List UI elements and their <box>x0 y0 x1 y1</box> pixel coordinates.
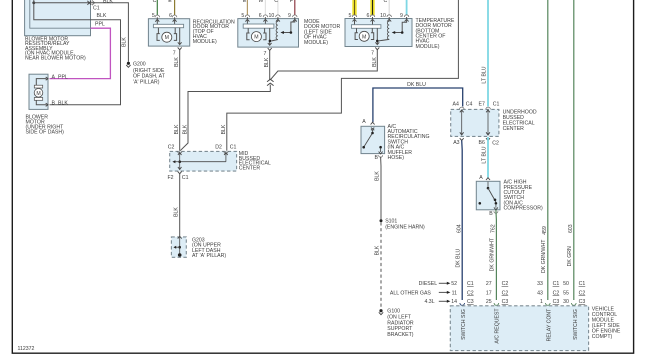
svg-text:C3: C3 <box>502 299 509 305</box>
svg-text:MODULE): MODULE) <box>304 40 328 46</box>
temp caption <box>416 18 455 50</box>
svg-text:C2: C2 <box>502 290 509 296</box>
wire BLK from C1 to G200 <box>92 0 129 62</box>
svg-text:A: A <box>479 175 483 181</box>
A/C automatic recirculating switch <box>361 119 385 161</box>
svg-text:C: C <box>274 0 278 4</box>
svg-text:C2: C2 <box>579 290 586 296</box>
svg-text:1: 1 <box>540 299 543 305</box>
blower motor caption <box>26 114 65 135</box>
wire internal from splice dot to connector C1 <box>32 0 92 20</box>
svg-text:SWITCH SIG: SWITCH SIG <box>573 309 579 340</box>
wire to mode pin 9 <box>294 0 296 15</box>
svg-text:BLK: BLK <box>122 37 128 47</box>
svg-text:27: 27 <box>486 281 492 287</box>
svg-text:BLK: BLK <box>182 124 188 134</box>
wire to mode pin 5 <box>246 0 248 15</box>
svg-text:PPL: PPL <box>58 74 68 80</box>
splice S101 <box>380 219 425 231</box>
svg-text:7: 7 <box>371 50 374 56</box>
VCM caption <box>592 306 621 340</box>
svg-text:5: 5 <box>241 13 244 19</box>
svg-text:B: B <box>489 211 493 217</box>
svg-text:C2: C2 <box>502 281 509 287</box>
svg-text:6: 6 <box>259 13 262 19</box>
svg-text:F2: F2 <box>168 175 174 181</box>
underhood bussed electrical center <box>451 101 500 146</box>
svg-text:C2: C2 <box>467 290 474 296</box>
recirc caption <box>193 19 235 45</box>
wire BLK recirc to MID C2 <box>174 50 180 151</box>
svg-text:C1: C1 <box>230 145 237 151</box>
underhood caption <box>503 110 537 133</box>
wire YEL to temp pin 5 <box>352 0 356 15</box>
wire DK GRN/WHT 459 from top to VCM <box>541 0 548 300</box>
svg-text:55: 55 <box>563 290 569 296</box>
wire BLK splice to MID C2 <box>180 85 270 151</box>
svg-text:50: 50 <box>563 281 569 287</box>
ground G100 <box>379 309 414 339</box>
wire DK BLU switch A to underhood A4 <box>373 82 463 122</box>
svg-text:C1: C1 <box>467 281 474 287</box>
wire DK GRN/WHT 762 HP switch B to VCM <box>490 210 497 300</box>
wire to mode pin 10 <box>277 0 279 15</box>
mode door motor <box>238 13 299 47</box>
svg-text:C1: C1 <box>553 281 560 287</box>
wire LT BLU to temp pin 9 <box>406 0 408 15</box>
svg-text:BLK: BLK <box>103 0 113 5</box>
svg-text:C2: C2 <box>492 141 499 147</box>
A/C high pressure cutout switch <box>476 175 500 217</box>
svg-text:52: 52 <box>451 281 457 287</box>
svg-text:112372: 112372 <box>18 346 35 352</box>
svg-text:A4: A4 <box>453 101 459 107</box>
svg-text:CENTER: CENTER <box>239 165 261 171</box>
mode pin 7 exit <box>264 48 272 67</box>
blower motor resistor/relay assembly <box>25 0 91 36</box>
wire BLK MID F2 to G203 <box>174 174 180 237</box>
svg-text:DIESEL: DIESEL <box>419 281 438 287</box>
MID caption <box>239 151 271 171</box>
svg-text:B: B <box>374 155 378 161</box>
recirculation door motor <box>148 13 189 46</box>
svg-text:43: 43 <box>537 290 543 296</box>
svg-text:C: C <box>153 0 157 4</box>
svg-text:W: W <box>258 0 263 4</box>
svg-text:BLK: BLK <box>58 101 68 107</box>
temperature door motor <box>345 13 412 46</box>
cut label fragments at top <box>153 0 388 4</box>
svg-text:C1: C1 <box>93 5 100 11</box>
svg-text:C3: C3 <box>553 299 560 305</box>
resistor R mode <box>277 17 279 21</box>
svg-text:DK BLU: DK BLU <box>455 248 461 267</box>
svg-text:BLK: BLK <box>97 13 107 19</box>
svg-text:BLK: BLK <box>375 171 381 181</box>
svg-text:LT BLU: LT BLU <box>481 66 487 83</box>
svg-text:BRACKET): BRACKET) <box>387 332 414 338</box>
svg-text:C1: C1 <box>182 175 189 181</box>
svg-text:HOSE): HOSE) <box>388 155 405 161</box>
wire DK BLU 604 underhood A3 to VCM <box>455 140 462 300</box>
svg-text:BLK: BLK <box>174 124 180 134</box>
svg-text:604: 604 <box>456 224 462 233</box>
svg-text:RELAY CONT: RELAY CONT <box>546 308 552 342</box>
vehicle control module <box>450 306 588 351</box>
wire DK GRN to recirc pin 5 <box>156 0 158 15</box>
svg-text:(ENGINE HARN): (ENGINE HARN) <box>385 225 425 231</box>
svg-text:BLK: BLK <box>174 57 180 67</box>
svg-text:COMPRESSOR): COMPRESSOR) <box>504 206 543 212</box>
svg-text:NEAR BLOWER MOTOR): NEAR BLOWER MOTOR) <box>25 55 86 61</box>
svg-text:6: 6 <box>169 13 172 19</box>
svg-text:E: E <box>168 0 172 4</box>
svg-text:11: 11 <box>452 290 457 296</box>
wire BLK switch B to S101 <box>375 157 381 220</box>
pin rows wire 762 <box>486 281 509 305</box>
svg-text:COMPT): COMPT) <box>592 334 613 340</box>
wire BLK dashed S101 to G100 <box>375 222 381 309</box>
svg-text:ALL OTHER GAS: ALL OTHER GAS <box>390 290 432 296</box>
splice chevrons <box>267 79 274 85</box>
svg-text:603: 603 <box>568 224 574 233</box>
svg-text:DK GRN/WHT: DK GRN/WHT <box>490 237 496 271</box>
svg-text:25: 25 <box>486 299 492 305</box>
svg-text:SWITCH SIG: SWITCH SIG <box>461 309 467 340</box>
pin rows wire 604 <box>451 281 474 305</box>
svg-text:G200: G200 <box>133 61 146 67</box>
svg-text:D2: D2 <box>215 145 222 151</box>
svg-text:C3: C3 <box>467 299 474 305</box>
svg-text:C2: C2 <box>168 145 175 151</box>
svg-text:B: B <box>52 101 56 107</box>
svg-text:5: 5 <box>152 13 155 19</box>
svg-text:14: 14 <box>451 299 457 305</box>
recirc pin 7 exit <box>173 47 182 67</box>
wire DK GRN 603 from top to VCM <box>567 0 574 300</box>
wire BLK mode pin 7 down to splice <box>269 50 271 80</box>
svg-text:B6: B6 <box>479 140 485 146</box>
blower motor M <box>29 74 68 109</box>
svg-text:459: 459 <box>542 226 548 235</box>
pin rows wire 459 <box>537 281 559 305</box>
wire BLK resistor box to blower motor B <box>50 13 121 105</box>
wiper temp <box>395 17 407 33</box>
svg-text:C1: C1 <box>493 101 500 107</box>
svg-text:A/C REQUEST: A/C REQUEST <box>495 308 501 344</box>
mode caption <box>304 19 340 46</box>
svg-text:LT BLU: LT BLU <box>482 146 488 163</box>
svg-text:M: M <box>362 34 366 40</box>
svg-text:C1: C1 <box>579 281 586 287</box>
svg-text:PPL: PPL <box>95 22 105 28</box>
svg-text:E: E <box>243 0 247 4</box>
svg-text:7: 7 <box>173 50 176 56</box>
A/C recirc switch caption <box>388 124 430 161</box>
ground G203 <box>171 236 226 259</box>
svg-text:17: 17 <box>486 290 492 296</box>
svg-text:A: A <box>52 74 56 80</box>
MID bussed electrical center <box>168 145 237 181</box>
svg-text:CENTER: CENTER <box>503 126 525 132</box>
svg-text:A3: A3 <box>453 140 459 146</box>
wire PPL resistor box to blower motor A <box>50 22 111 79</box>
svg-text:7: 7 <box>264 51 267 57</box>
svg-text:MODULE): MODULE) <box>416 44 440 50</box>
svg-text:BLK: BLK <box>174 207 180 217</box>
svg-text:SIDE OF DASH): SIDE OF DASH) <box>26 129 65 135</box>
svg-text:BLK: BLK <box>375 245 381 255</box>
svg-text:M: M <box>165 35 169 41</box>
svg-text:M: M <box>36 91 40 97</box>
svg-text:DK GRN/WHT: DK GRN/WHT <box>541 239 547 273</box>
pin rows wire 603 <box>563 281 585 305</box>
svg-text:DK BLU: DK BLU <box>407 82 426 88</box>
wire BLK temp pin 7 down and left to splice <box>270 50 377 80</box>
svg-text:4.3L: 4.3L <box>424 299 434 305</box>
svg-text:AT 'A' PILLAR): AT 'A' PILLAR) <box>192 253 226 259</box>
svg-text:'A' PILLAR): 'A' PILLAR) <box>133 80 160 86</box>
svg-text:10: 10 <box>380 13 386 19</box>
svg-text:C: C <box>384 0 388 4</box>
A/C HP switch caption <box>504 180 543 212</box>
svg-text:5: 5 <box>349 13 352 19</box>
resistor R temp <box>388 17 390 21</box>
wire BLK from top to MID D2 <box>221 0 459 151</box>
connector C1 <box>87 0 99 11</box>
svg-text:33: 33 <box>537 281 543 287</box>
wiper mode <box>283 17 294 32</box>
svg-text:F: F <box>290 0 293 4</box>
wire to mode pin 6 <box>264 0 266 15</box>
svg-text:BLK: BLK <box>221 124 227 134</box>
assembly caption <box>25 37 86 62</box>
temp pin 7 exit <box>371 47 379 67</box>
svg-text:C4: C4 <box>466 101 473 107</box>
svg-text:E7: E7 <box>479 101 485 107</box>
svg-text:MODULE): MODULE) <box>193 39 217 45</box>
svg-text:C2: C2 <box>553 290 560 296</box>
svg-text:DK GRN: DK GRN <box>567 246 573 266</box>
svg-text:M: M <box>254 35 258 41</box>
engine application arrows <box>390 281 451 305</box>
svg-text:30: 30 <box>563 299 569 305</box>
svg-text:9: 9 <box>288 13 291 19</box>
svg-text:6: 6 <box>367 13 370 19</box>
svg-text:C3: C3 <box>579 299 586 305</box>
wire LT BLU from top to underhood E7 <box>481 0 488 107</box>
svg-text:9: 9 <box>400 13 403 19</box>
svg-text:762: 762 <box>490 224 496 233</box>
svg-text:A: A <box>362 119 366 125</box>
wire LT BLU underhood B6 to HP switch A <box>482 137 488 178</box>
wire to temp pin 10 <box>388 0 390 15</box>
ground G200 <box>126 61 166 85</box>
wire to recirc pin 6 <box>174 0 176 15</box>
svg-text:10: 10 <box>269 13 275 19</box>
wire YEL to temp pin 6 <box>370 0 374 15</box>
